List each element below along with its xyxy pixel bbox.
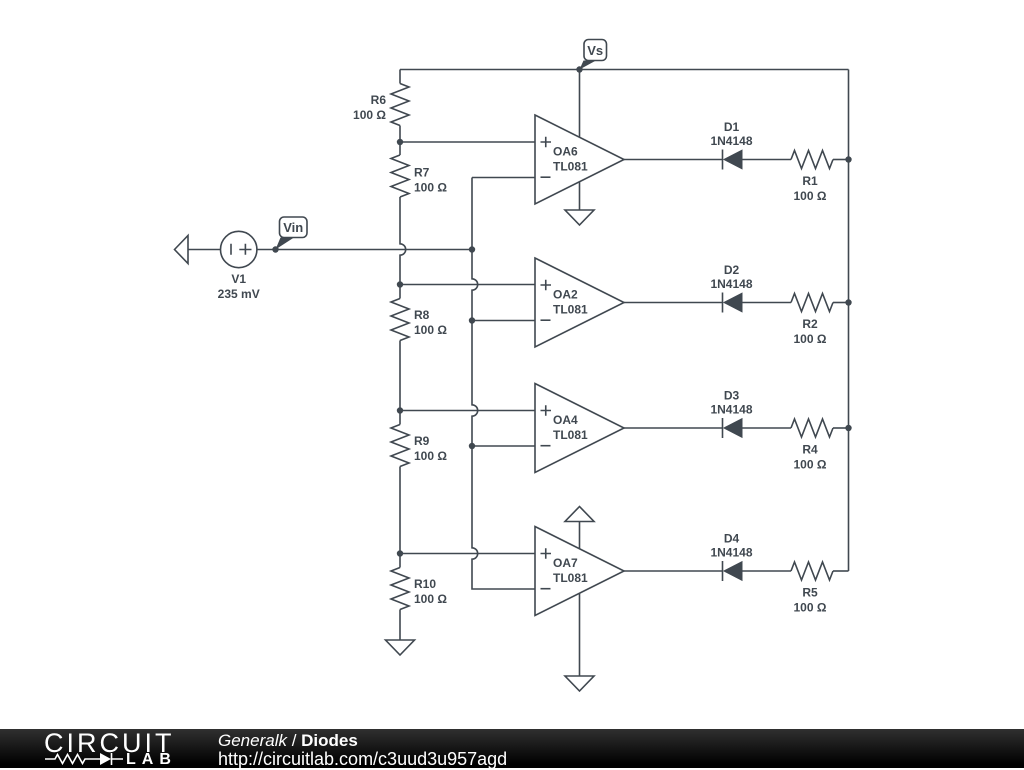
svg-text:R8: R8 [414, 308, 430, 322]
svg-text:100 Ω: 100 Ω [353, 108, 386, 122]
wire R4 to right rail [833, 427, 849, 429]
svg-text:OA6: OA6 [553, 145, 578, 159]
wire ladder tap y=410.5 to op-amp plus input [400, 410, 535, 412]
svg-text:100 Ω: 100 Ω [794, 332, 827, 346]
diode D1 1N4148 [710, 120, 752, 170]
wire OA4 output to D3 [624, 427, 723, 429]
svg-text:1N4148: 1N4148 [710, 134, 752, 148]
ground under OA6 [565, 210, 594, 225]
node OA2- tap [469, 317, 475, 323]
svg-text:100 Ω: 100 Ω [794, 458, 827, 472]
svg-text:R10: R10 [414, 577, 436, 591]
node tap OA4+ [397, 407, 403, 413]
svg-text:R5: R5 [802, 586, 818, 600]
node R2 rail [845, 299, 851, 305]
wire R1 to right rail [833, 159, 849, 161]
node tap OA7+ [397, 550, 403, 556]
net flag Vin [276, 217, 308, 250]
svg-text:100 Ω: 100 Ω [414, 592, 447, 606]
wire right rail (Vs to R5) [848, 70, 850, 572]
svg-text:100 Ω: 100 Ω [794, 601, 827, 615]
resistor R10 zigzag [391, 568, 409, 610]
wire OA7 V- to ground [579, 594, 581, 677]
node OA4- tap [469, 443, 475, 449]
wire OA6 minus input from rail corner [472, 177, 535, 179]
node R4 rail [845, 425, 851, 431]
wire ladder tap y=142 to op-amp plus input [400, 141, 535, 143]
svg-text:Vin: Vin [283, 220, 303, 235]
wire D2 to R2 [742, 302, 791, 304]
wire OA4 minus input [472, 445, 535, 447]
wire OA6 output to D1 [624, 159, 723, 161]
svg-text:1N4148: 1N4148 [710, 403, 752, 417]
wire OA6 V+ from Vs rail [579, 70, 581, 138]
wire flag to V1 [188, 249, 221, 251]
op-amp OA2 TL081 [535, 258, 624, 347]
ground under OA7 [565, 676, 594, 691]
svg-text:100 Ω: 100 Ω [414, 181, 447, 195]
node Vs junction [576, 66, 582, 72]
svg-text:100 Ω: 100 Ω [414, 449, 447, 463]
svg-text:R2: R2 [802, 317, 818, 331]
diode D4 1N4148 [710, 532, 752, 582]
svg-text:TL081: TL081 [553, 159, 588, 173]
wire OA7 V+ stem [579, 522, 581, 550]
CircuitLab logo text [44, 728, 175, 759]
wire OA2 output to D2 [624, 302, 723, 304]
svg-text:TL081: TL081 [553, 571, 588, 585]
svg-text:100 Ω: 100 Ω [794, 189, 827, 203]
wire top rail Vs [400, 69, 849, 71]
wire OA7 output to D4 [624, 570, 723, 572]
wire feedback rail x=472 with hops [472, 178, 535, 590]
node Vin flag [272, 246, 278, 252]
wire Vin horizontal from V1 to feedback rail [257, 249, 473, 251]
wire ladder tap y=284.5 to op-amp plus input [400, 284, 535, 286]
svg-text:1N4148: 1N4148 [710, 546, 752, 560]
svg-text:100 Ω: 100 Ω [414, 323, 447, 337]
power arrow above OA7 [565, 507, 594, 522]
wire D3 to R4 [742, 427, 791, 429]
footer bar [0, 729, 1024, 768]
resistor R2 100 ohm [791, 294, 833, 347]
diode D3 1N4148 [710, 389, 752, 439]
voltage source V1 235 mV [218, 231, 260, 301]
footer title [218, 731, 358, 751]
svg-text:1N4148: 1N4148 [710, 277, 752, 291]
svg-text:TL081: TL081 [553, 302, 588, 316]
node tap OA6+ [397, 139, 403, 145]
net flag arrow left of V1 [175, 236, 189, 264]
svg-text:R7: R7 [414, 166, 430, 180]
resistor R4 100 ohm [791, 419, 833, 472]
resistor R5 100 ohm [791, 562, 833, 615]
resistor R8 zigzag [391, 299, 409, 341]
resistor R6 zigzag [391, 84, 409, 126]
svg-text:D1: D1 [724, 120, 740, 134]
ground under R10 [386, 640, 415, 655]
svg-text:D3: D3 [724, 389, 740, 403]
svg-text:R1: R1 [802, 174, 818, 188]
svg-text:R6: R6 [371, 93, 387, 107]
diode D2 1N4148 [710, 263, 752, 313]
op-amp OA6 TL081 [535, 115, 624, 204]
svg-text:235 mV: 235 mV [218, 287, 260, 301]
op-amp OA4 TL081 [535, 384, 624, 473]
svg-text:Vs: Vs [587, 43, 603, 58]
wire R5 to right rail [833, 570, 849, 572]
wire OA2 minus input [472, 320, 535, 322]
wire OA6 V- to ground [579, 182, 581, 211]
resistor R9 zigzag [391, 425, 409, 467]
svg-text:R4: R4 [802, 443, 818, 457]
wire resistor ladder rail with hop over Vin [400, 70, 406, 641]
node R1 rail [845, 156, 851, 162]
wire R2 to right rail [833, 302, 849, 304]
svg-text:TL081: TL081 [553, 428, 588, 442]
svg-text:R9: R9 [414, 434, 430, 448]
node tap OA2+ [397, 281, 403, 287]
wire D1 to R1 [742, 159, 791, 161]
svg-text:OA2: OA2 [553, 288, 578, 302]
resistor R7 zigzag [391, 155, 409, 197]
net flag Vs [580, 40, 607, 70]
wire ladder tap y=553.5 to op-amp plus input [400, 553, 535, 555]
op-amp OA7 TL081 [535, 527, 624, 616]
footer url [218, 749, 507, 770]
svg-text:V1: V1 [231, 272, 246, 286]
resistor R1 100 ohm [791, 151, 833, 204]
svg-text:D2: D2 [724, 263, 740, 277]
svg-text:D4: D4 [724, 532, 740, 546]
svg-text:OA7: OA7 [553, 556, 578, 570]
node Vin to rail [469, 246, 475, 252]
CircuitLab logo symbol line [44, 729, 174, 768]
wire D4 to R5 [742, 570, 791, 572]
svg-text:OA4: OA4 [553, 413, 578, 427]
